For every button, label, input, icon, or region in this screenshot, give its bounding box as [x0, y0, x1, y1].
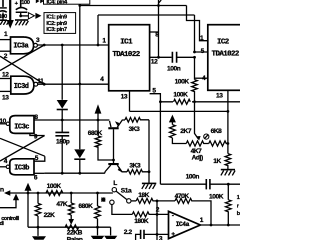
svg-text:2K7: 2K7: [180, 128, 192, 135]
svg-text:47K: 47K: [56, 201, 67, 208]
wire IC1 pin8 stub: [150, 31, 159, 33]
svg-text:3K3: 3K3: [129, 126, 141, 133]
gate IC3c (NAND, inverted input): [10, 116, 34, 134]
wire IC3d output to IC1 pin 4: [38, 83, 109, 85]
wire cross latch A (diagonal): [0, 45, 44, 71]
wire IC2 pin13: [227, 90, 229, 111]
diode D2: [74, 84, 85, 173]
wire IC3b pin 5 elbow: [34, 156, 45, 161]
svg-text:IC4a: IC4a: [176, 221, 190, 228]
input bubble pin 4: [6, 165, 9, 168]
wire IC2 pin5 stub: [195, 15, 208, 52]
svg-text:100: 100: [0, 14, 7, 20]
resistor 47K vertical: [68, 193, 74, 225]
resistor 100K horizontal (pin5): [173, 99, 192, 104]
node 100n/100K: [227, 183, 230, 186]
wire x194.5 down: [194, 57, 196, 79]
marker arrows top (double filled triangles, cut at top): [36, 0, 44, 3]
ground G_cap (hatched): [15, 20, 28, 25]
svg-text:Adj): Adj): [192, 155, 203, 162]
node x98 at pin1 net: [97, 44, 100, 47]
node x149 y171.8: [148, 170, 151, 173]
capacitor C_top 100u electrolytic: [16, 0, 28, 16]
node x194.5 y52: [193, 51, 196, 54]
svg-text:controlli: controlli: [1, 216, 20, 222]
switch S1a: [110, 188, 131, 205]
wire IC2 pin4 stub: [195, 77, 208, 79]
arrow left (control): [4, 190, 113, 195]
capacitor 2.2: [136, 230, 169, 240]
svg-text:13: 13: [216, 93, 223, 100]
node x62 top: [61, 44, 64, 47]
svg-text:n: n: [0, 186, 4, 193]
capacitor 180p: [55, 120, 69, 173]
transistor Q1 (FET): [108, 120, 125, 129]
node 180p bottom: [61, 172, 64, 175]
svg-text:Balan: Balan: [67, 236, 83, 240]
wire cross latch B (diagonal): [0, 56, 44, 84]
node x194.5 y57: [193, 56, 196, 59]
svg-text:22K: 22K: [44, 212, 55, 219]
wire IC3b input 4: [0, 166, 6, 168]
gate IC3b (NAND, inverted input): [10, 159, 34, 175]
node D2 bottom: [78, 172, 81, 175]
svg-text:3K3: 3K3: [129, 163, 141, 170]
svg-text:13: 13: [2, 94, 9, 101]
label box IC4: pin4 (cut at top): [44, 0, 90, 6]
node x98 y121.8: [97, 119, 100, 122]
ground T1 (solid): [32, 227, 46, 240]
svg-text:IC3d: IC3d: [14, 83, 29, 91]
svg-text:470K: 470K: [175, 193, 190, 200]
resistor 3K3 (Q1): [125, 118, 149, 123]
wire op-amp output: [200, 224, 240, 226]
wire pin3 stub down: [156, 234, 158, 240]
node cap/marker junction: [19, 15, 22, 18]
svg-text:22KB: 22KB: [67, 229, 83, 236]
wire IC1 pin13: [129, 91, 131, 112]
svg-text:1K: 1K: [213, 158, 221, 165]
wire cross latch C (diagonal): [0, 136, 45, 162]
svg-text:100K: 100K: [175, 79, 190, 86]
svg-text:180p: 180p: [56, 139, 70, 146]
wire rail to IC2 pin1: [187, 6, 208, 41]
node x160.4: [159, 100, 162, 103]
svg-text:2.2: 2.2: [124, 229, 133, 236]
wire IC3b output jog: [34, 172, 44, 174]
label box IC1/IC2/IC3 pins: [44, 13, 76, 34]
node x71.2 y193: [70, 192, 73, 195]
svg-text:IC3b: IC3b: [14, 164, 29, 172]
marker asterisk: [101, 197, 105, 201]
resistor 22K vertical: [35, 193, 41, 227]
svg-text:100K: 100K: [209, 193, 224, 200]
node pin2: [156, 213, 159, 216]
svg-text:180K: 180K: [134, 218, 149, 225]
op-amp IC4a: [169, 211, 201, 238]
svg-text:-: -: [172, 212, 174, 219]
wire IC3a input 1: [0, 39, 11, 41]
resistor 100K vertical (IC2 side): [192, 80, 198, 102]
svg-text:+: +: [171, 231, 175, 238]
node gate tie: [112, 159, 115, 162]
wire IC3d input 13: [0, 90, 11, 92]
marker arrow to label box (open+filled triangles): [28, 13, 41, 19]
node x97.5 y227.2: [96, 226, 99, 229]
arrow supply down (thick): [7, 0, 14, 29]
transistor Q2 (FET): [105, 163, 127, 172]
capacitor 100n (bottom): [160, 179, 240, 189]
node feedback: [156, 200, 159, 203]
gate IC3d (NAND): [11, 76, 38, 94]
wire top rail y5.5: [80, 5, 187, 7]
IC2 box TDA1022: [208, 25, 242, 91]
svg-text:IC3: pin7: IC3: pin7: [46, 27, 67, 33]
resistor 18K: [136, 198, 175, 203]
wire pin5 net down to 100n: [159, 102, 161, 184]
node top rail x80: [78, 4, 81, 7]
node top rail x158.5: [157, 4, 160, 7]
svg-text:IC3c: IC3c: [14, 124, 29, 132]
svg-text:12: 12: [151, 59, 158, 66]
wire IC1 pin8 vertical: [159, 0, 162, 57]
node x62 mid: [61, 119, 64, 122]
svg-text:IC1: IC1: [120, 39, 133, 47]
gate IC3a (NAND): [11, 37, 38, 54]
wire IC1 pin5 stub: [150, 94, 161, 102]
IC1 box TDA1022: [109, 25, 150, 91]
wire x149 vertical: [148, 120, 150, 184]
resistor 100K vertical (output): [226, 184, 232, 225]
svg-text:100K: 100K: [173, 91, 188, 98]
resistor 470K: [175, 198, 211, 225]
potentiometer 22KB: [65, 225, 78, 230]
ground G_1K (hatched): [221, 170, 235, 176]
svg-text:IC1: pin9: IC1: pin9: [46, 15, 68, 21]
wire vertical x62 upper: [61, 45, 63, 100]
wire to marker: [21, 15, 28, 17]
node A x194.5: [193, 100, 196, 103]
node x158.5 y57: [157, 56, 160, 59]
svg-text:b: b: [237, 211, 240, 217]
wire vertical x80 (IC4 pin4 feed): [79, 5, 81, 84]
resistor 680K vertical (input): [95, 193, 101, 227]
resistor 6K8: [209, 141, 228, 146]
wire x98 upper vertical: [97, 15, 99, 45]
wire cross latch D (diagonal): [0, 138, 45, 156]
resistor 1K vertical: [225, 111, 231, 169]
svg-text:IC3a: IC3a: [13, 43, 29, 51]
wire FET gates vertical: [113, 129, 115, 163]
arrow up (x98 control): [95, 104, 102, 120]
resistor 3K3 (Q2): [127, 170, 149, 175]
arrow up (2K7 control): [169, 115, 176, 123]
wire IC1 pin12 stub: [150, 56, 172, 58]
node IC3a out: [43, 44, 46, 47]
svg-text:6K8: 6K8: [211, 128, 223, 135]
wire IC3a input 2: [0, 50, 11, 52]
wire clock rail y111.4: [130, 110, 228, 112]
node IC3d out: [43, 83, 46, 86]
node x97.5 y193: [96, 192, 99, 195]
node x227.9 y111.4: [227, 110, 230, 113]
wiper arrow 4K7: [195, 102, 201, 141]
capacitor C_left 100 (cut at left edge): [0, 0, 7, 20]
wire node link vertical x157: [156, 201, 158, 235]
arrow up big (control): [25, 183, 32, 228]
wire bottom rail y227.2: [28, 226, 111, 228]
diode D1: [57, 100, 68, 120]
ground G_left (cut at left edge): [0, 20, 9, 25]
svg-text:100n: 100n: [186, 173, 200, 180]
arrow up small (control): [0, 194, 19, 208]
wire IC3c pin 9 elbow: [30, 133, 45, 135]
input bubble pin 10: [6, 122, 9, 125]
svg-text:680K: 680K: [78, 203, 93, 210]
wire IC3d input 12: [0, 78, 11, 80]
node x28 y193: [27, 192, 30, 195]
svg-text:100n: 100n: [167, 65, 181, 72]
node x227.9 y143.5: [227, 142, 230, 145]
svg-text:L: L: [113, 180, 117, 187]
capacitor 100n (top): [172, 52, 194, 63]
svg-text:IC2: pin9: IC2: pin9: [46, 21, 68, 27]
resistor 2K7 vertical: [169, 122, 186, 144]
wire switch pole to 18K: [131, 200, 136, 202]
wire IC3a output to IC1 pin 1: [37, 44, 108, 46]
ground G_q (hatched): [142, 183, 157, 189]
potentiometer 4K7: [186, 141, 209, 146]
svg-text:IC4: pin4: IC4: pin4: [46, 0, 68, 6]
ground T2 (solid): [91, 227, 105, 239]
svg-text:18K: 18K: [138, 192, 149, 199]
wire rail y15: [98, 14, 195, 16]
svg-text:S1a: S1a: [121, 188, 132, 195]
wire switch throw2 down: [112, 205, 132, 215]
resistor 180K: [132, 212, 168, 217]
wire IC3c input 10: [0, 123, 6, 125]
wire IC3c output (pin 8): [34, 119, 109, 121]
node x38 y193: [37, 192, 40, 195]
node output/470K: [210, 224, 213, 227]
svg-text:13: 13: [121, 94, 128, 101]
wire IC3b output line (pin 6): [44, 172, 105, 174]
node output/100K: [227, 224, 230, 227]
svg-text:TDA1022: TDA1022: [112, 51, 139, 59]
svg-text:IC2: IC2: [217, 39, 229, 47]
ground T3 (solid): [104, 227, 117, 239]
adjust symbol: [204, 134, 209, 139]
svg-text:TDA1022: TDA1022: [212, 51, 239, 59]
resistor 680K (gate bias): [95, 120, 113, 160]
svg-text:100K: 100K: [47, 183, 62, 190]
svg-text:680K: 680K: [88, 130, 103, 137]
node pin3: [156, 233, 159, 236]
resistor 100K horizontal (control): [46, 191, 63, 196]
node x80 at pin4 net: [78, 83, 81, 86]
wire Q2 left to pin6 line: [104, 172, 106, 173]
svg-text:100: 100: [21, 0, 30, 6]
wire node A rail: [160, 101, 240, 103]
node x38 y227.2: [37, 226, 40, 229]
svg-text:12: 12: [2, 71, 9, 78]
